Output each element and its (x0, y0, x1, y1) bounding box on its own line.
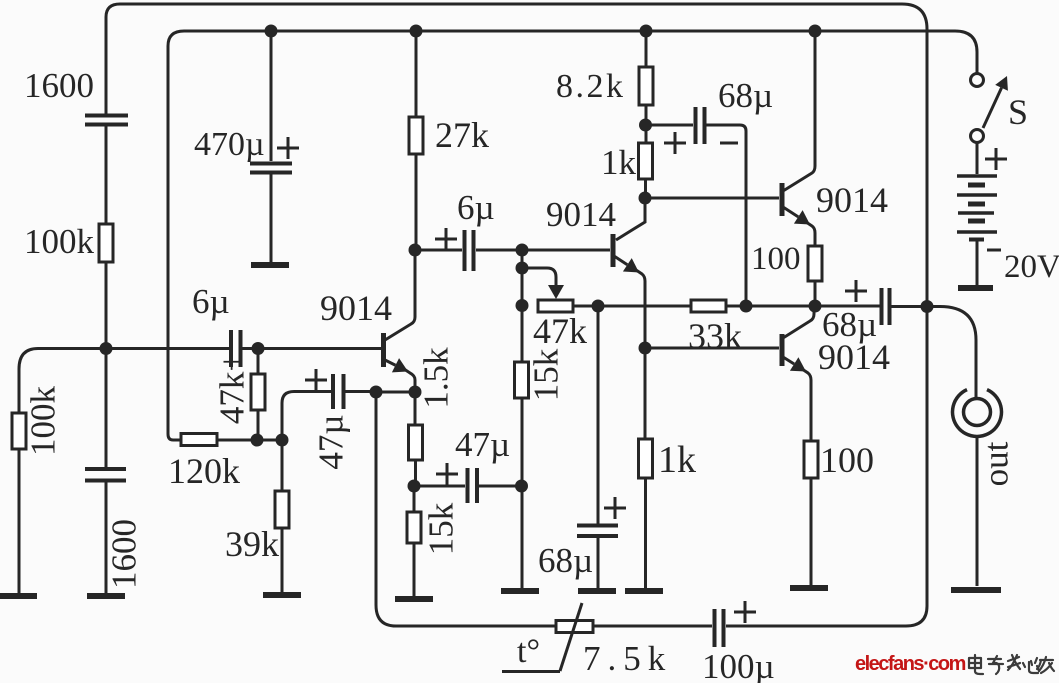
output jack inner circle (964, 399, 991, 426)
wire 1k bottom to node y198 (644, 179, 647, 198)
svg-text:100µ: 100µ (702, 647, 775, 683)
polarity + of fb 47µ (305, 369, 327, 391)
resistor 100 (upper) (808, 246, 822, 281)
wire 47µ right plate to node (345, 390, 376, 393)
node 39k top junction (276, 434, 289, 447)
battery long plate 4 (957, 230, 997, 234)
wire 47k bottom lead (257, 410, 260, 440)
svg-text:15k: 15k (422, 502, 461, 555)
wire output cap to outer rail (891, 305, 927, 308)
wire x522 vertical (521, 250, 524, 588)
capacitor 1600 (lower-left, vertical) (85, 469, 126, 481)
wire rail306 33k to output cap (726, 305, 880, 308)
node 120k/47k junction (251, 434, 264, 447)
resistor 39k (275, 491, 289, 528)
wire 27k top lead (415, 31, 418, 117)
transistor Q1 emitter with arrow (385, 360, 395, 365)
polarity + of interstage 6µ (435, 228, 457, 250)
polarity - of battery (987, 249, 1001, 252)
battery short plate 4 (969, 238, 984, 242)
resistor 1k (upper) (639, 143, 653, 179)
svg-text:47µ: 47µ (455, 425, 510, 464)
polarity + of 100µ (734, 601, 756, 623)
svg-text:27k: 27k (435, 115, 489, 155)
ground under output jack (951, 587, 1001, 593)
capacitor 68µ (bootstrap) (696, 107, 705, 144)
battery short plate 1 (968, 183, 985, 188)
svg-text:47k+: 47k+ (213, 352, 252, 424)
svg-text:6µ: 6µ (457, 188, 495, 227)
wire 120k node up-curve to 47µ (282, 392, 331, 441)
wire 68µ mid to ground (597, 537, 600, 588)
transistor Q4 collector up to rail306 (783, 307, 814, 338)
wire y198 Q2 collector to Q3 base (645, 197, 779, 200)
resistor 15k (lower) (407, 512, 421, 543)
polarity - of bootstrap 68µ (720, 142, 738, 145)
battery end bar (958, 285, 993, 291)
wire pot right lead (573, 305, 598, 308)
capacitor 6µ (input coupling) (231, 330, 241, 367)
battery long plate 3 (958, 211, 994, 215)
ground under 470µ (251, 262, 289, 268)
ground under x598 (578, 588, 616, 594)
resistor 1.5k (409, 425, 423, 460)
resistor 100 (lower) (804, 441, 818, 478)
svg-text:68µ: 68µ (538, 541, 593, 580)
node Q1 collector / 6µ junction (409, 244, 422, 257)
node 470µ tap on rail (265, 25, 278, 38)
wire bottom rail left segment with curve up to x376 (376, 392, 555, 626)
battery short plate 2 (968, 202, 985, 207)
ground under 15k lower (395, 596, 433, 602)
node Q3 collector on rail (809, 25, 822, 38)
wire 15k2 top lead (413, 486, 416, 512)
svg-text:15k: 15k (527, 348, 566, 401)
wire 1k lower to ground (644, 478, 647, 588)
capacitor 47µ (fb) (333, 374, 344, 409)
node pot left terminal (516, 299, 529, 312)
svg-text:9014: 9014 (816, 180, 888, 220)
svg-text:120k: 120k (168, 451, 240, 491)
battery short plate 3 (968, 219, 985, 224)
wire outer loop: left vertical x106 top, top rail y4, right vertical x927, bottom rail right segment (106, 4, 927, 626)
ground under x522 (501, 588, 539, 594)
switch S lever (983, 88, 1002, 128)
node 8.2k-1k junction (639, 119, 652, 132)
wire 27k bottom to node y250 (415, 154, 418, 250)
node output on outer rail (921, 300, 934, 313)
wire 68µ fb left lead (646, 124, 694, 127)
svg-text:39k: 39k (225, 524, 279, 564)
polarity + of 470µ (277, 137, 299, 159)
resistor 1k (lower) (639, 439, 653, 478)
polarity + of bootstrap 68µ (664, 132, 686, 154)
svg-text:1k: 1k (658, 439, 696, 481)
resistor 8.2k (639, 67, 653, 105)
node rail306 x598 (592, 300, 605, 313)
thermistor 7.5k body (556, 621, 593, 633)
wire y486 right of 47µ2 (479, 485, 521, 488)
wire 100 lower to ground (810, 478, 813, 585)
svg-text:9014: 9014 (320, 288, 392, 328)
transistor Q2 base bar (611, 234, 616, 267)
ground under x106 (87, 593, 125, 599)
node input junction at x106 (100, 342, 113, 355)
wire 39k top lead (281, 440, 284, 491)
resistor 47k (vertical) (251, 374, 265, 410)
capacitor 68µ (output) (882, 288, 890, 325)
output jack outer arc (952, 390, 1001, 437)
svg-text:1.5k: 1.5k (417, 347, 456, 409)
svg-text:47k: 47k (533, 311, 587, 351)
wire 100 upper to rail306 (814, 281, 817, 306)
svg-text:100k: 100k (24, 222, 95, 261)
wire 47k top lead (257, 349, 260, 375)
resistor 100k (upper-left) (99, 224, 113, 262)
polarity + of bypass 47µ (436, 463, 458, 485)
wire 8.2k top lead (645, 31, 648, 67)
battery long plate 2 (957, 193, 997, 197)
wire Q2 emitter down to 1k (644, 348, 647, 439)
wire bottom rail middle segment (between 100µ and 7.5k) (594, 625, 712, 628)
svg-text:1600: 1600 (24, 66, 94, 105)
wire far-left 100k to ground (18, 449, 21, 594)
polarity + of battery (985, 148, 1007, 170)
transistor Q2 emitter elbow down (636, 270, 645, 348)
node 47µ right plate junction (370, 386, 383, 399)
transistor Q2 collector (616, 198, 645, 240)
resistor 100k (far-left) (12, 413, 26, 449)
resistor 33k (691, 300, 726, 312)
switch S bottom contact (971, 130, 984, 143)
svg-text:6µ: 6µ (192, 282, 230, 321)
svg-text:8.2k: 8.2k (556, 68, 626, 105)
svg-text:1600: 1600 (105, 519, 144, 589)
wire 8.2k to 1k (645, 105, 648, 143)
resistor 120k (181, 434, 217, 446)
wire y486 left of 47µ2 (414, 485, 465, 488)
transistor Q1 emitter elbow down (404, 369, 415, 392)
ground under lower 1k (625, 588, 663, 594)
resistor 15k (under pot) (515, 362, 529, 398)
wire y250 left of 6µ cap (415, 249, 462, 252)
transistor Q1 base bar (381, 333, 386, 367)
svg-text:9014: 9014 (546, 195, 616, 234)
wire 15k2 to ground (413, 543, 416, 596)
wire rail306 to 33k (598, 305, 691, 308)
svg-text:elecfans·com: elecfans·com (855, 653, 966, 675)
transistor Q4 emitter with arrow (783, 357, 794, 364)
transistor Q3 emitter elbow down (806, 222, 815, 246)
wire 1.5k to 47µ2 node (414, 460, 417, 486)
wire input line to Q1 base (242, 347, 381, 350)
transistor Q3 emitter with arrow (783, 207, 798, 217)
wire x376 down to bottom rail (375, 392, 378, 604)
wire x106 from 1600 to ground (105, 482, 108, 594)
ground under lower 100 (790, 585, 828, 591)
svg-text:out: out (977, 441, 1016, 486)
wire wiper hook (522, 268, 556, 284)
capacitor 1600 (top-left) (85, 116, 128, 125)
polarity + of output 68µ (845, 280, 867, 302)
wire input line left segment with curl down to far-left 100k (19, 349, 231, 414)
node rail306 x746 (740, 300, 753, 313)
svg-text:9014: 9014 (818, 337, 890, 377)
node y250 x522 junction (516, 244, 529, 257)
transistor Q3 collector up to rail (783, 31, 815, 191)
node Q2 collector / Q3 base junction (639, 192, 652, 205)
transistor Q1 collector up to 27k node (385, 250, 415, 340)
polarity + of mid 68µ (604, 497, 626, 519)
node 1.5k/15k/47µ junction (408, 480, 421, 493)
wire y348 Q2 emitter to Q4 base (645, 347, 779, 350)
svg-text:100k: 100k (24, 386, 63, 457)
capacitor 470µ (250, 164, 292, 173)
wire y250 from 6µ to Q2 base (476, 249, 610, 252)
wire 68µ fb right lead down to rail306 (706, 125, 746, 306)
svg-text:33k: 33k (688, 316, 742, 356)
svg-text:68µ: 68µ (718, 76, 773, 115)
wire y392 between 47µ and emitter (376, 391, 415, 394)
battery long plate 1 (957, 174, 997, 178)
svg-text:100: 100 (820, 440, 874, 480)
wire x598 down to 68µ (597, 306, 600, 524)
svg-text:100: 100 (751, 241, 801, 277)
capacitor 100µ (715, 609, 724, 647)
node Q2 emitter / Q4 base junction (639, 342, 652, 355)
transistor Q4 emitter elbow down (802, 369, 811, 441)
ground under far-left 100k (0, 593, 37, 599)
wire x106 between 1600 cap and 100k (105, 126, 108, 224)
transistor Q3 base bar (780, 183, 785, 216)
thermistor diagonal (560, 603, 582, 671)
ground under 39k (263, 592, 301, 598)
switch S top contact (971, 74, 984, 87)
node 47µ right / x522 (515, 480, 528, 493)
wire inner V+ rail y31 with left drop x168 to 120k and right curve to switch (168, 31, 977, 440)
transistor Q4 base bar (780, 334, 785, 366)
thermistor foot (502, 670, 560, 673)
capacitor 47µ (bypass) (468, 468, 478, 503)
node 8.2k tap on rail (640, 25, 653, 38)
wire 470µ to its ground (270, 174, 273, 263)
potentiometer 47k body (538, 300, 573, 312)
resistor 27k (409, 117, 423, 154)
capacitor 6µ (interstage) (465, 230, 474, 271)
wire 470µ stem upper (270, 31, 273, 161)
svg-text:t°: t° (517, 633, 540, 670)
svg-text:7.5k: 7.5k (583, 639, 672, 678)
wire 39k to ground (281, 528, 284, 593)
wire output node curve down to jack (927, 307, 976, 400)
svg-text:S: S (1008, 92, 1028, 132)
wire x106 from input node to 1600 bottom cap (105, 348, 108, 468)
svg-text:1k: 1k (601, 143, 637, 182)
wire switch to battery (976, 143, 979, 174)
battery negative lead (976, 240, 979, 285)
node rail306 x815 (809, 300, 822, 313)
node 27k tap on rail (410, 25, 423, 38)
wire x106 from 100k to input node (105, 262, 108, 348)
svg-text:470µ: 470µ (194, 126, 265, 163)
pot wiper arrow (555, 280, 558, 285)
svg-text:20V: 20V (1004, 249, 1059, 285)
logo 电子发烧友 (stroke approximation) (969, 655, 1054, 674)
wire Q1 emitter to 1.5k (414, 392, 417, 425)
svg-text:47µ: 47µ (312, 414, 351, 469)
transistor Q2 emitter with arrow (614, 256, 627, 265)
wire jack to ground (976, 437, 979, 587)
wire 120k right lead (217, 439, 283, 442)
node Q1 emitter junction (409, 386, 422, 399)
node wiper takeoff (516, 262, 529, 275)
capacitor 68µ (emitter bypass mid) (577, 526, 618, 537)
node base bias junction (252, 342, 265, 355)
